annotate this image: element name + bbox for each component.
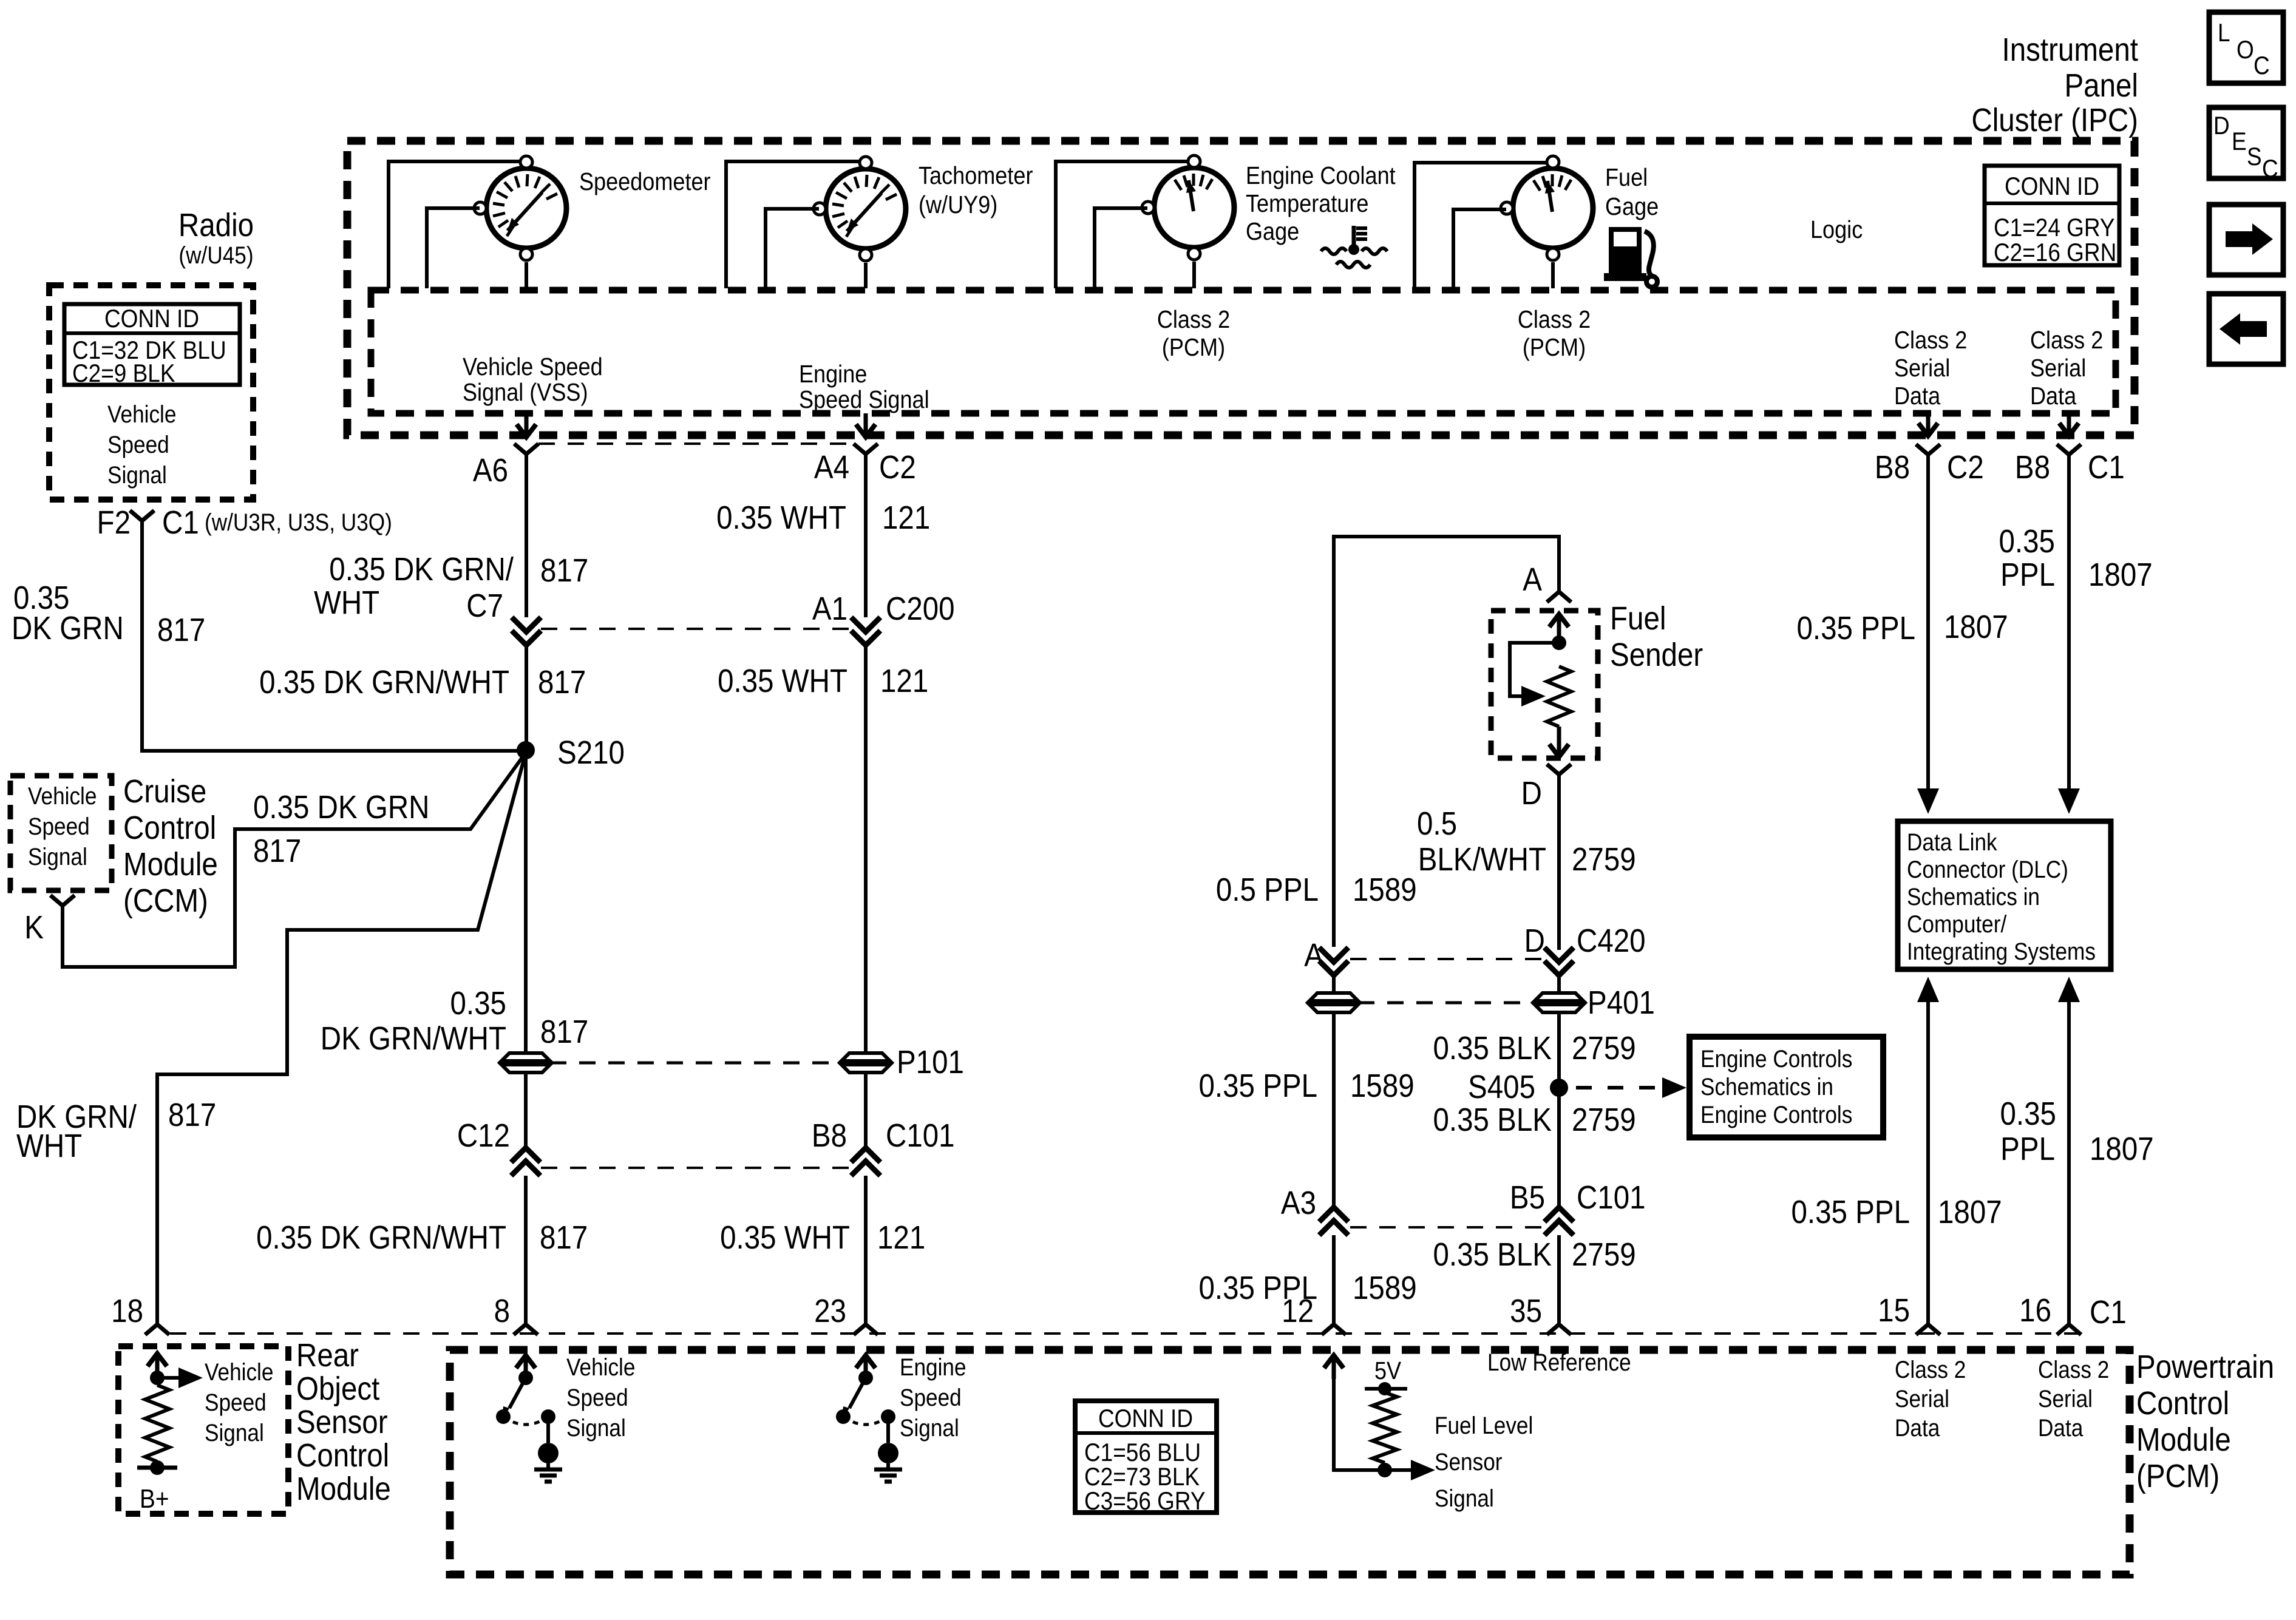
svg-text:C12: C12 [457,1117,510,1154]
wire fuel gauge bottom terminal [1518,262,1591,362]
svg-text:Data: Data [1895,1414,1940,1442]
svg-text:BLK/WHT: BLK/WHT [1418,841,1546,878]
wire label 0.35 BLK 2759 (above S405) [1433,1029,1636,1066]
svg-text:Connector (DLC): Connector (DLC) [1907,856,2068,883]
PCM class 2 serial data label (right) [2038,1356,2109,1442]
svg-text:0.5 PPL: 0.5 PPL [1216,871,1319,908]
in-line connector C12 / C101 [457,1117,852,1176]
fuel sender pin A [1523,561,1571,602]
svg-text:1807: 1807 [1938,1193,2002,1230]
svg-text:S: S [2247,143,2262,171]
ROSCM internal circuit [137,1354,203,1514]
wire label 0.35 WHT 121 (top) [716,499,930,536]
wire class 2 serial data right (to DLC) [2058,455,2080,814]
svg-text:0.35 BLK: 0.35 BLK [1433,1101,1552,1138]
svg-text:Rear: Rear [296,1337,359,1374]
svg-text:35: 35 [1510,1292,1542,1329]
svg-text:(PCM): (PCM) [2136,1457,2220,1494]
wire S210 to rear object sensor module [157,753,526,1324]
svg-text:Vehicle: Vehicle [28,782,97,810]
svg-text:Cluster (IPC): Cluster (IPC) [1971,101,2138,138]
svg-text:0.35 BLK: 0.35 BLK [1433,1236,1552,1273]
svg-text:C101: C101 [886,1117,955,1154]
fuel pump icon [1604,227,1657,287]
cruise control module dashed box [10,776,112,890]
svg-text:Speed: Speed [566,1384,628,1411]
wire BLK D to P401 [1557,975,1561,994]
svg-text:817: 817 [540,1013,588,1050]
svg-text:(PCM): (PCM) [1523,334,1586,362]
svg-text:Schematics in: Schematics in [1907,883,2040,910]
low reference label [1487,1349,1631,1376]
svg-text:Sensor: Sensor [1435,1448,1502,1476]
svg-text:D: D [2213,112,2230,140]
svg-text:Vehicle: Vehicle [566,1354,635,1381]
svg-text:0.5: 0.5 [1417,805,1457,842]
svg-text:P401: P401 [1588,984,1655,1021]
svg-text:P101: P101 [897,1043,964,1080]
in-line connector P401 pair [1309,984,1655,1021]
svg-text:23: 23 [814,1292,846,1329]
svg-text:Gage: Gage [1605,193,1659,221]
svg-text:A4: A4 [814,449,849,486]
data link connector reference box [1898,821,2111,969]
svg-text:Data: Data [2038,1414,2083,1442]
wire label 0.35 DK GRN 817 (CCM) [253,788,429,869]
svg-text:Radio: Radio [178,206,254,243]
svg-text:Engine Coolant: Engine Coolant [1246,162,1396,190]
svg-text:B+: B+ [140,1483,169,1514]
DESC icon box [2209,107,2283,183]
fuel gage [1501,156,1659,260]
svg-text:C2=9 BLK: C2=9 BLK [72,359,175,388]
wire engine speed A4 to A1 [864,454,868,617]
svg-text:A1: A1 [812,590,847,627]
fuel sender pin D connector [1521,764,1571,812]
connector face A4 C2 [814,444,916,486]
svg-text:E: E [2232,127,2247,156]
svg-text:Sensor: Sensor [296,1403,388,1440]
svg-text:(PCM): (PCM) [1162,334,1225,362]
wire label 0.35 PPL 1807 (left lower) [1792,1193,2002,1230]
svg-text:Data Link: Data Link [1907,829,1997,856]
wire VSS C7 to S210 [525,645,528,750]
svg-text:Data: Data [2030,382,2077,410]
svg-text:18: 18 [111,1292,143,1329]
svg-text:Speed: Speed [28,813,90,840]
svg-text:Serial: Serial [1894,354,1950,382]
svg-text:Class 2: Class 2 [1157,306,1230,334]
coolant temperature icon [1321,226,1387,268]
wire VSS A6 to C7 [525,454,528,617]
svg-text:Logic: Logic [1810,216,1863,244]
PCM pin 16 / C1 [2019,1292,2127,1335]
svg-text:12: 12 [1282,1292,1314,1329]
wire speedometer top terminal [389,161,520,288]
wire label 0.5 PPL 1589 [1216,871,1417,908]
svg-text:0.35 WHT: 0.35 WHT [718,662,847,699]
svg-text:Computer/: Computer/ [1907,910,2007,938]
svg-text:Signal: Signal [28,843,87,870]
wire label 0.35 PPL 1807 (right) [1999,523,2153,593]
CCM vehicle speed signal label [28,782,97,870]
wire label 0.5 BLK/WHT 2759 [1417,805,1636,878]
svg-text:Gage: Gage [1246,218,1299,246]
fuel sender dashed box [1491,611,1598,758]
splice S405 [1468,1068,1686,1105]
wire label 0.35 WHT 121 (mid) [718,662,928,699]
wire label 0.35 PPL 1807 (right lower) [2000,1095,2154,1167]
svg-text:Schematics in: Schematics in [1700,1073,1833,1100]
svg-text:Signal: Signal [566,1414,626,1442]
svg-text:Cruise: Cruise [123,773,206,810]
radio pin F2 connector [97,504,392,541]
svg-text:WHT: WHT [16,1127,82,1164]
fuel level sensor signal label [1435,1412,1533,1512]
svg-text:1807: 1807 [1944,608,2008,645]
wire fuel gauge top terminal [1415,163,1547,288]
in-line connector B5 / C101 (right) [1510,1179,1646,1235]
wire PPL P401 to A3 [1332,1012,1336,1207]
powertrain control module dashed box [450,1350,2130,1574]
wire class 2 right DLC to PCM pin 16 [2058,977,2080,1324]
IPC logic inner dashed box [371,290,2116,413]
svg-text:S210: S210 [557,734,625,771]
svg-text:817: 817 [538,663,586,700]
svg-text:Class 2: Class 2 [1894,327,1967,354]
svg-text:C2: C2 [1947,449,1984,486]
ROSCM title [296,1337,391,1507]
svg-text:2759: 2759 [1572,841,1636,878]
svg-text:Sender: Sender [1610,636,1703,673]
right arrow icon box [2209,205,2283,275]
CCM title [123,773,218,919]
IPC pin A4 exit arrow [856,413,875,437]
svg-text:CONN ID: CONN ID [1098,1405,1193,1433]
svg-text:0.35: 0.35 [2000,1095,2056,1132]
fuel sender potentiometer [1510,614,1571,757]
in-line connector A3 / C101 (left) [1281,1184,1544,1235]
svg-text:L: L [2218,19,2230,47]
wire fuel sender D to C420 [1557,774,1561,950]
svg-text:Powertrain: Powertrain [2136,1348,2274,1385]
wire VSS C12 to PCM pin 8 [524,1176,528,1324]
wire label 0.35 DK GRN/WHT 817 [259,663,586,700]
svg-text:CONN ID: CONN ID [2005,172,2099,201]
svg-text:DK GRN/WHT: DK GRN/WHT [321,1020,506,1057]
svg-text:WHT: WHT [314,584,379,621]
svg-text:Vehicle: Vehicle [107,401,176,428]
svg-text:0.35 WHT: 0.35 WHT [716,499,846,536]
svg-text:Temperature: Temperature [1246,190,1369,218]
svg-text:15: 15 [1878,1292,1910,1329]
svg-text:A6: A6 [473,452,508,489]
PCM pin 23 [814,1292,878,1335]
ROSCM pin 18 [111,1292,169,1335]
svg-text:C1: C1 [2090,1293,2127,1330]
svg-text:C200: C200 [886,590,955,627]
wire VSS S210 to P101 [524,750,528,1054]
svg-text:Class 2: Class 2 [2030,327,2103,354]
svg-text:0.35 DK GRN/WHT: 0.35 DK GRN/WHT [256,1219,506,1256]
svg-text:Signal: Signal [1435,1485,1494,1512]
in-line connector A1 / C200 [812,590,955,645]
wire BLK B5 to PCM pin 35 [1557,1235,1561,1324]
PCM CONN ID table [1075,1401,1217,1516]
connector face B8 C2 [1875,444,1984,486]
svg-text:PPL: PPL [2000,1130,2055,1167]
splice S210 [517,734,625,771]
svg-text:C101: C101 [1577,1179,1646,1216]
speedometer gauge [474,156,711,260]
svg-text:O: O [2237,36,2254,64]
svg-text:5V: 5V [1374,1357,1401,1385]
svg-text:Data: Data [1894,382,1941,410]
in-line connector P101 (right half) [841,1043,964,1080]
svg-text:C1=24 GRY: C1=24 GRY [1994,214,2115,242]
svg-text:Control: Control [123,809,216,846]
svg-text:B5: B5 [1510,1179,1545,1216]
fuel sender title [1610,600,1703,673]
svg-text:Vehicle Speed: Vehicle Speed [463,353,603,381]
svg-text:C3=56 GRY: C3=56 GRY [1084,1487,1206,1516]
connector face B8 C1 [2015,444,2125,486]
svg-text:Speedometer: Speedometer [579,168,711,196]
wire fuel sender top run [1334,537,1559,947]
wire tachometer top terminal [726,161,860,288]
svg-text:1589: 1589 [1353,1269,1417,1306]
wire label 0.35 BLK 2759 (to PCM) [1433,1236,1636,1273]
IPC title [1971,31,2138,138]
wire radio F2 to S210 [142,521,525,751]
svg-text:C1: C1 [2088,449,2125,486]
svg-text:(w/U3R, U3S, U3Q): (w/U3R, U3S, U3Q) [205,509,392,536]
svg-text:A: A [1304,937,1323,974]
svg-text:Vehicle: Vehicle [205,1358,273,1386]
svg-text:C7: C7 [466,587,503,624]
wire BLK S405 to B5 [1557,1088,1561,1207]
svg-text:817: 817 [540,1219,588,1256]
svg-text:Engine Controls: Engine Controls [1700,1101,1852,1128]
svg-text:0.35 PPL: 0.35 PPL [1797,609,1915,646]
svg-text:Speed Signal: Speed Signal [799,386,929,414]
wire label 0.35 WHT 121 (to PCM) [720,1219,925,1256]
svg-text:D: D [1521,774,1542,812]
ROSCM vehicle speed signal label [205,1358,273,1446]
engine speed signal label [799,361,929,414]
wire engine speed B8 to PCM pin 23 [864,1176,868,1324]
svg-text:0.35 WHT: 0.35 WHT [720,1219,850,1256]
radio CONN ID table [64,304,240,388]
svg-text:Engine Controls: Engine Controls [1700,1045,1852,1073]
svg-text:Module: Module [123,846,218,883]
PCM engine speed signal label [900,1354,966,1442]
PCM 5V fuel level sensor circuit [1324,1355,1435,1480]
svg-text:1807: 1807 [2090,1130,2154,1167]
svg-text:121: 121 [877,1219,925,1256]
svg-text:C: C [2262,155,2278,183]
logic label [1810,216,1863,244]
PCM class 2 serial data label (left) [1895,1356,1966,1442]
PCM pin 8 [494,1292,538,1335]
svg-text:Tachometer: Tachometer [919,162,1033,190]
svg-text:C420: C420 [1577,922,1646,959]
in-line connector B8 / C101 [812,1117,955,1176]
IPC pin B8/C2 exit arrow [1918,415,1938,436]
wire coolant gauge left terminal [1095,208,1147,288]
svg-text:A3: A3 [1281,1184,1316,1221]
wire label 0.35 DK GRN/WHT 817 (below S210) [321,985,588,1057]
in-line connector C7 [466,587,852,645]
svg-text:817: 817 [540,552,588,589]
svg-text:Fuel: Fuel [1605,164,1648,192]
svg-text:2759: 2759 [1572,1101,1636,1138]
radio vehicle speed signal label [107,401,176,489]
LOC icon box [2209,12,2283,83]
svg-text:Speed: Speed [205,1389,267,1416]
svg-text:0.35 DK GRN/WHT: 0.35 DK GRN/WHT [259,663,509,700]
svg-text:K: K [24,909,44,946]
svg-text:0.35: 0.35 [450,985,506,1022]
vehicle speed signal (VSS) label [463,353,603,407]
svg-text:S405: S405 [1468,1068,1535,1105]
svg-text:DK GRN: DK GRN [12,609,124,646]
svg-text:0.35 BLK: 0.35 BLK [1433,1029,1552,1066]
wire label 0.35 DK GRN 817 [12,579,205,648]
svg-text:Module: Module [2136,1421,2231,1458]
wire engine speed P101 to B8 [864,1072,868,1148]
ground (vehicle speed signal) [534,1443,562,1482]
radio dashed box [49,285,253,500]
class 2 serial data label (right) [2030,327,2103,410]
svg-text:0.35: 0.35 [1999,523,2055,560]
svg-text:Speed: Speed [107,431,169,458]
wire label 0.35 DK GRN/WHT 817 (to PCM) [256,1219,588,1256]
svg-text:16: 16 [2019,1292,2051,1329]
wire speedometer bottom terminal [525,262,528,288]
PCM pin 35 [1510,1292,1571,1335]
wire tachometer bottom terminal [864,263,868,288]
svg-text:1589: 1589 [1353,871,1417,908]
svg-text:C: C [2254,52,2270,80]
svg-text:C2=16 GRN: C2=16 GRN [1994,239,2116,267]
svg-text:817: 817 [168,1096,216,1133]
wire label 0.35 PPL 1589 (to PCM) [1199,1269,1417,1306]
svg-text:C2: C2 [879,449,916,486]
svg-text:121: 121 [880,662,928,699]
svg-text:Instrument: Instrument [2002,31,2138,68]
PCM vehicle speed signal label [566,1354,635,1442]
svg-text:B8: B8 [2015,449,2050,486]
wire label 0.35 DK GRN/ WHT 817 [314,551,588,621]
engine controls reference box [1690,1037,1883,1137]
svg-text:0.35 DK GRN/: 0.35 DK GRN/ [329,551,514,588]
wire engine speed A1 to P101 [864,645,868,1054]
svg-text:Module: Module [296,1470,391,1507]
svg-text:Signal: Signal [900,1414,959,1442]
svg-text:Control: Control [2136,1384,2229,1422]
wire label 0.35 PPL 1807 (left) [1797,608,2008,646]
svg-text:A: A [1523,561,1542,598]
wire label 0.35 PPL 1589 (mid) [1199,1067,1415,1104]
wire label 0.35 BLK 2759 (below S405) [1433,1101,1636,1138]
IPC pin A6 exit arrow [517,413,536,437]
wire PPL A3 to PCM pin 12 [1332,1235,1336,1324]
svg-text:Signal (VSS): Signal (VSS) [463,379,588,407]
svg-text:2759: 2759 [1572,1029,1636,1066]
wire fuel gauge left terminal [1453,209,1506,288]
svg-text:(w/U45): (w/U45) [178,242,253,269]
svg-text:Engine: Engine [900,1354,966,1381]
wire coolant gauge top terminal [1056,161,1188,288]
ground (engine speed signal) [874,1443,902,1482]
svg-text:(w/UY9): (w/UY9) [919,191,997,219]
svg-text:817: 817 [157,611,205,648]
svg-text:D: D [1524,922,1545,959]
svg-text:Engine: Engine [799,361,867,388]
wire PPL A to P401 [1332,975,1336,994]
svg-text:Integrating Systems: Integrating Systems [1907,938,2096,965]
svg-text:Class 2: Class 2 [1518,306,1591,334]
svg-text:0.35 PPL: 0.35 PPL [1792,1193,1910,1230]
svg-text:1807: 1807 [2088,556,2153,593]
PCM connector face dashed line [170,1332,2082,1335]
svg-text:B8: B8 [812,1117,847,1154]
svg-text:Class 2: Class 2 [2038,1356,2109,1383]
wire class 2 serial data left (to DLC) [1917,455,1939,814]
svg-text:Signal: Signal [205,1419,264,1446]
wire tachometer left terminal [766,209,819,288]
PCM pin 12 [1282,1292,1346,1335]
engine coolant temperature gage [1142,155,1396,260]
svg-text:2759: 2759 [1572,1236,1636,1273]
in-line connector P101 (left half) [501,1053,841,1073]
PCM title [2136,1348,2274,1494]
svg-text:Signal: Signal [107,461,167,489]
svg-text:Control: Control [296,1437,389,1474]
wire VSS P101 to C12 [524,1072,528,1148]
wire coolant gauge bottom terminal [1157,262,1230,362]
svg-text:Panel: Panel [2064,67,2138,104]
svg-text:B8: B8 [1875,449,1910,486]
left arrow icon box [2209,294,2283,364]
wire label DK GRN/ WHT 817 (ROSCM) [16,1096,216,1164]
class 2 serial data label (left) [1894,327,1967,410]
wire speedometer left terminal [427,208,480,288]
connector face A6 [473,444,852,489]
svg-text:F2: F2 [97,504,131,541]
svg-text:Serial: Serial [2030,354,2086,382]
svg-text:C1: C1 [162,504,199,541]
svg-text:Fuel Level: Fuel Level [1435,1412,1533,1439]
svg-text:CONN ID: CONN ID [104,305,199,333]
tachometer gauge [813,157,1033,261]
IPC pin B8/C1 exit arrow [2059,415,2079,436]
CCM pin K connector [24,895,75,946]
Instrument Panel Cluster (IPC) outer dashed box [347,141,2135,435]
svg-text:Speed: Speed [900,1384,962,1411]
svg-text:Fuel: Fuel [1610,600,1666,637]
IPC CONN ID table [1985,166,2119,267]
svg-text:0.35 PPL: 0.35 PPL [1199,1067,1317,1104]
svg-text:Serial: Serial [2038,1385,2093,1412]
svg-text:Serial: Serial [1895,1385,1949,1412]
in-line connector A / C420 (left) [1304,937,1544,975]
svg-text:Class 2: Class 2 [1895,1356,1966,1383]
svg-text:1589: 1589 [1350,1067,1415,1104]
svg-text:PPL: PPL [2000,556,2055,593]
wire class 2 left DLC to PCM pin 15 [1917,977,1939,1324]
